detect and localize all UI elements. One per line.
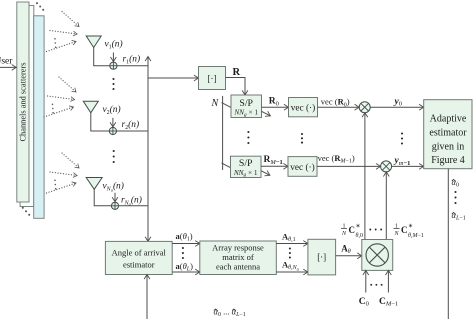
node N bus	[222, 96, 224, 170]
antenna 1	[86, 36, 101, 48]
svg-text:a(θL): a(θL)	[176, 261, 194, 273]
svg-text:given in: given in	[432, 142, 465, 153]
vdots between A wires	[289, 247, 291, 258]
wire C*thetaM-1 up into multiplier 2	[385, 172, 387, 240]
wire Atheta,1 to selector	[276, 243, 308, 245]
svg-text:NNg × 1: NNg × 1	[233, 168, 258, 178]
wire C0 up into correlator	[365, 270, 367, 292]
block S/P 1	[231, 95, 262, 118]
svg-text:v1(n): v1(n)	[105, 39, 123, 51]
dots: more channel bars (top right)	[36, 2, 44, 11]
vdots between antenna 1 and 2	[112, 78, 114, 90]
vdots between S/P blocks	[247, 131, 249, 144]
svg-text:∗: ∗	[356, 224, 361, 230]
vdots between y wires	[401, 132, 403, 144]
block vec 2	[288, 157, 317, 177]
wire adaptive estimator output down (alpha feedback)	[447, 169, 449, 319]
wire R into S/P 1	[226, 78, 246, 96]
wire bus branch to covariance block	[148, 77, 199, 79]
block adaptive estimator	[424, 100, 472, 169]
antenna 3	[86, 178, 102, 190]
channel bar N (cyan, back)	[34, 16, 44, 219]
svg-text:Channels and scatterers: Channels and scatterers	[19, 62, 28, 141]
antenna 2	[83, 101, 98, 113]
wire noise vNa into adder	[114, 193, 116, 202]
svg-text:Angle of arrival: Angle of arrival	[112, 248, 167, 258]
svg-text:estimator: estimator	[123, 260, 155, 270]
label 1/N C*theta,M-1	[393, 224, 423, 240]
svg-text:N: N	[211, 98, 220, 109]
svg-text:vec (·): vec (·)	[290, 162, 315, 173]
wire main bus (up arrow at top, down into angle estimator)	[147, 57, 149, 242]
svg-text:C: C	[401, 225, 408, 235]
wire CM-1 up into correlator	[387, 270, 389, 292]
svg-text:matrix of: matrix of	[222, 252, 254, 262]
svg-text:v2(n): v2(n)	[103, 104, 121, 116]
svg-text:C: C	[349, 225, 356, 235]
dots between C inputs	[370, 284, 382, 286]
wire User arrow	[0, 66, 16, 68]
dots: more channel bars (bottom left)	[22, 207, 31, 216]
block S/P 2	[231, 156, 262, 177]
svg-text:User: User	[0, 57, 13, 67]
wire C*theta0 up into multiplier 1	[364, 113, 366, 240]
multiplier 2	[381, 161, 392, 172]
adder 1	[110, 62, 117, 69]
channel bar 1: Channels and scatterers	[17, 2, 29, 202]
wire alpha feedback up into angle estimator	[146, 275, 148, 319]
block selector [.]	[308, 239, 336, 275]
wire ym-1 to adaptive estimator	[392, 165, 424, 167]
svg-text:[·]: [·]	[208, 74, 217, 84]
scatterer rays to antenna 1	[47, 12, 80, 52]
arrow S/P 1 parallel out	[262, 111, 271, 116]
svg-text:[·]: [·]	[317, 252, 326, 262]
vdots alpha outputs	[454, 191, 456, 204]
channel bar 2 (middle, mostly hidden)	[20, 6, 34, 207]
svg-text:rNa(n): rNa(n)	[121, 195, 142, 207]
svg-text:vNa(n): vNa(n)	[103, 181, 124, 193]
svg-text:estimator: estimator	[429, 128, 467, 139]
block array response matrix	[200, 241, 276, 275]
vdots between vec blocks	[301, 133, 303, 144]
wire noise v1 into adder	[112, 53, 114, 62]
svg-text:Adaptive: Adaptive	[430, 114, 467, 125]
label alpha0	[452, 180, 456, 182]
vdots between a wires	[182, 247, 184, 259]
block angle of arrival estimator	[105, 241, 172, 274]
wire y0 to adaptive estimator	[370, 106, 424, 108]
adder 3	[111, 202, 118, 209]
wire tick into S/P 1	[222, 103, 232, 108]
wire r1 to bus	[117, 65, 148, 67]
svg-text:R: R	[233, 67, 241, 78]
wire r2 to bus	[117, 130, 149, 132]
label 1/N C*theta,0	[341, 224, 363, 240]
wire R0 to vec 1	[262, 106, 289, 108]
svg-text:vec (·): vec (·)	[291, 102, 316, 113]
svg-text:NNg × 1: NNg × 1	[233, 108, 258, 118]
wire noise v2 into adder	[112, 118, 114, 127]
scatterer rays to antenna 3	[47, 153, 80, 193]
wire rNa to bus	[119, 205, 148, 207]
arrow S/P 2 parallel out	[261, 171, 270, 176]
svg-text:θ,M−1: θ,M−1	[408, 233, 424, 239]
dots between C lines	[369, 229, 382, 231]
svg-text:r2(n): r2(n)	[122, 119, 140, 131]
svg-text:each antenna: each antenna	[216, 262, 260, 272]
wire RM-1 to vec 2	[261, 165, 288, 167]
svg-text:Figure 4: Figure 4	[431, 155, 465, 166]
block correlator (big multiplier)	[362, 240, 393, 271]
adder 2	[109, 127, 116, 134]
wire vec2 out to multiplier 2	[317, 165, 381, 167]
block vec 1	[289, 98, 318, 117]
wire vec1 out to multiplier 1	[318, 106, 360, 108]
vdots between antenna 2 and 3	[113, 150, 115, 163]
svg-text:r1(n): r1(n)	[123, 54, 141, 66]
svg-text:∗: ∗	[408, 224, 413, 230]
block covariance [.]	[199, 67, 226, 90]
wire Atheta,Na to selector	[276, 271, 308, 273]
wire a(thetaL) to array response	[172, 271, 200, 273]
label alpha0 ... alphaL-1 (bottom)	[214, 309, 218, 311]
scatterer rays to antenna 2	[44, 77, 76, 117]
wire Atheta to correlator	[336, 255, 362, 257]
wire tick into S/P 2	[222, 163, 232, 168]
wire a(theta1) to array response	[172, 243, 200, 245]
multiplier 1	[359, 102, 370, 113]
svg-text:Array response: Array response	[212, 243, 264, 253]
svg-text:θ,0: θ,0	[356, 233, 363, 239]
label alphaL-1	[452, 213, 456, 215]
svg-text:a(θ1): a(θ1)	[176, 231, 193, 243]
